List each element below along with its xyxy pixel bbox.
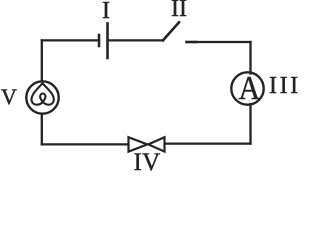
- wire bottom-left horizontal: [42, 143, 129, 145]
- lamp L (element V) circle: [26, 81, 58, 113]
- wire battery to switch: [108, 39, 164, 41]
- battery B (element I) long plate: [106, 24, 109, 59]
- switch S (element II) lever: [163, 22, 179, 40]
- wire top-left horizontal: [42, 39, 98, 41]
- label I (battery): [102, 0, 110, 23]
- valve symbol (element IV) left triangle: [129, 137, 148, 151]
- ammeter A (element III) circle: [231, 72, 263, 104]
- wire bottom-right horizontal: [165, 142, 251, 144]
- wire left vertical lower: [41, 114, 43, 145]
- label II (switch): [171, 0, 187, 21]
- wire switch to top-right corner: [196, 41, 251, 43]
- switch S (element II) right contact: [187, 41, 197, 44]
- valve symbol (element IV) right triangle: [148, 137, 164, 151]
- label III (ammeter): [269, 74, 301, 98]
- label IV (valve): [134, 150, 161, 175]
- label A inside ammeter: [239, 72, 261, 106]
- wire left vertical upper: [41, 40, 43, 81]
- battery B (element I) short plate: [98, 35, 101, 46]
- lamp L (element V) filament: heart with central loop: [31, 83, 53, 104]
- label V (lamp): [1, 86, 17, 108]
- wire right vertical upper: [249, 42, 251, 74]
- wire right vertical lower: [249, 104, 251, 144]
